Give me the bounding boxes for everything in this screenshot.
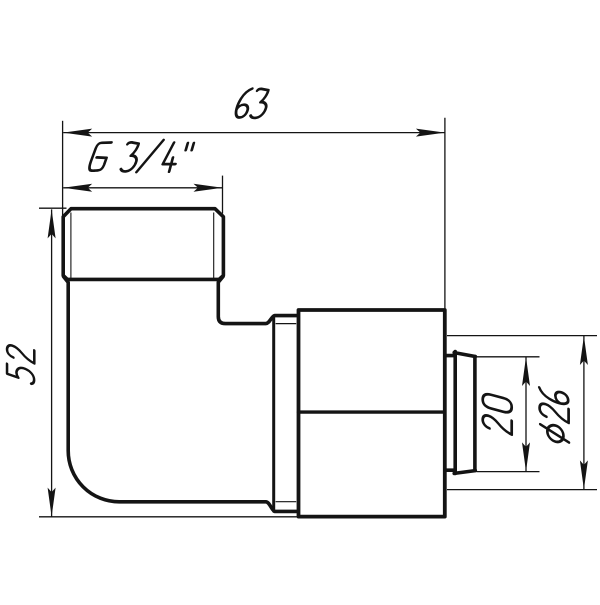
nut cone left edge bbox=[272, 316, 275, 511]
arrow phi26 bottom bbox=[580, 460, 588, 489]
arrow 63 right bbox=[416, 129, 445, 137]
thread line through cone top bbox=[276, 323, 297, 325]
arrow 20 bottom bbox=[522, 442, 530, 471]
dimension line 20 bbox=[525, 357, 527, 471]
nut body outline bbox=[299, 310, 445, 517]
extension line top (20) bbox=[477, 356, 540, 358]
nut body parting line bbox=[299, 410, 445, 413]
extension line right (G34) bbox=[222, 176, 224, 214]
extension line left (63/G34) bbox=[62, 121, 64, 216]
arrow 63 left bbox=[63, 129, 92, 137]
arrow G34 right bbox=[194, 184, 223, 192]
elbow inner profile right-top bbox=[218, 277, 296, 324]
thread root line right bbox=[213, 213, 215, 279]
tail bottom edge bbox=[454, 471, 475, 474]
dimension text 52 bbox=[7, 343, 34, 385]
elbow threaded end outline bbox=[63, 209, 223, 280]
extension line bottom (phi26) bbox=[447, 489, 597, 491]
arrow 20 top bbox=[522, 357, 530, 386]
arrow G34 left bbox=[63, 184, 92, 192]
thread root line left bbox=[70, 213, 72, 279]
tail bottom step bbox=[445, 468, 454, 472]
extension line top (phi26) bbox=[447, 335, 597, 337]
thread line through cone bottom bbox=[276, 501, 297, 503]
extension line bottom (20) bbox=[477, 471, 540, 473]
dimension text G 3/4 inch bbox=[88, 140, 195, 172]
arrow 52 bottom bbox=[48, 488, 56, 517]
tail top step bbox=[445, 354, 454, 358]
elbow outer profile left-bottom bbox=[64, 277, 297, 512]
dimension text phi26 bbox=[539, 386, 569, 445]
extension line top (52) bbox=[39, 207, 67, 209]
dimension line 63 bbox=[63, 132, 445, 134]
arrow phi26 top bbox=[580, 336, 588, 365]
tail top edge bbox=[454, 353, 475, 357]
dimension line G34 bbox=[63, 187, 222, 189]
tail end edge bbox=[473, 357, 477, 471]
extension line bottom (52) bbox=[39, 516, 298, 518]
extension line right (63) bbox=[444, 118, 446, 309]
tail collar edge bbox=[453, 352, 457, 474]
arrow 52 top bbox=[48, 209, 56, 238]
dimension line 52 bbox=[51, 209, 53, 516]
dimension text 63 bbox=[234, 89, 271, 118]
dimension text 20 bbox=[483, 393, 512, 435]
dimension line phi26 bbox=[583, 336, 585, 489]
